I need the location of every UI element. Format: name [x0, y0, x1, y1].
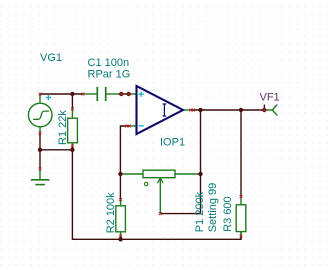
op-amp IOP1 — [130, 86, 191, 134]
svg-text:IOP1: IOP1 — [160, 136, 185, 148]
junction node: op-amp plus terminal — [126, 92, 130, 96]
voltage pin VF1 — [264, 106, 276, 115]
junction node: R2 bottom rail — [118, 237, 122, 241]
junction node: VG1 bottom — [38, 148, 42, 152]
svg-text:VG1: VG1 — [40, 52, 62, 64]
wire: inverting input to feedback node — [120, 126, 130, 174]
junction node: VF1 terminal — [262, 108, 266, 112]
junction node: R3 branch — [239, 108, 243, 112]
wire: VF1 label stub — [263, 105, 265, 109]
terminal cross marks — [39, 93, 266, 238]
wire: op-amp output to VF1 (horizontal, y=110) — [191, 109, 264, 111]
resistor R2 100k — [116, 200, 126, 236]
svg-text:R1 22k: R1 22k — [57, 110, 69, 145]
svg-text:VF1: VF1 — [260, 91, 280, 103]
wire: C1 right to op-amp plus input — [119, 93, 131, 95]
wire: VG1 bottom to R1 bottom (horizontal, y=149.8) — [40, 149, 72, 151]
junction node: R1 bottom — [70, 148, 74, 152]
svg-text:R3 600: R3 600 — [222, 196, 234, 231]
svg-text:C1 100n: C1 100n — [88, 57, 130, 69]
wire: left rail down and bottom rail to R3 — [72, 150, 241, 240]
wire: VG1 plus to C1 (horizontal, y=94) — [40, 93, 83, 95]
svg-text:R2 100k: R2 100k — [105, 192, 117, 233]
ground — [31, 169, 50, 185]
wire: feedback node down to R2 top — [119, 174, 121, 200]
junction node: C1 right terminal — [119, 92, 123, 96]
junction node: output feedback branch — [198, 108, 202, 112]
wire: R1 bottom to ground rail — [71, 146, 73, 150]
junction node: R1 top — [70, 92, 74, 96]
generator VG1 — [28, 94, 52, 134]
wire: VG1 bottom vertical — [39, 133, 41, 150]
junction node: P1 right terminal — [198, 172, 202, 176]
wire: ground stub below VG1 node — [39, 150, 41, 169]
resistor R1 22k — [68, 109, 78, 147]
junction node: feedback left — [118, 172, 122, 176]
VG1 polarity plus sign — [46, 95, 51, 100]
capacitor C1 — [83, 87, 119, 101]
svg-text:P1 200k: P1 200k — [194, 191, 206, 232]
wire: R2 bottom to bottom rail — [120, 236, 122, 239]
resistor R3 600 — [236, 197, 246, 236]
wire: output node down to R3 top — [240, 110, 242, 197]
wire: R3 top lead stub — [240, 232, 242, 240]
wire: R1 branch vertical from top wire — [71, 94, 73, 110]
svg-text:Setting 99: Setting 99 — [207, 183, 219, 233]
svg-text:RPar 1G: RPar 1G — [88, 69, 131, 81]
potentiometer P1 — [120, 170, 198, 213]
wire: output node down through P1 right terminal to wiper return — [160, 110, 200, 214]
